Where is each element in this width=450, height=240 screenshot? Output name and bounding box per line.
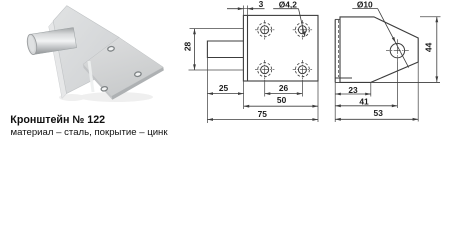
svg-text:44: 44 [424,42,434,52]
hole bottom-right [293,60,312,79]
svg-text:75: 75 [258,109,268,119]
pin (top view) [207,41,243,58]
base edge-on top line [335,77,352,79]
svg-text:50: 50 [277,95,287,105]
photo pin [26,28,77,56]
plate outline (top view) [243,15,318,81]
svg-text:26: 26 [279,83,289,93]
svg-text:53: 53 [374,108,384,118]
right view ext lines [335,17,440,122]
svg-text:3: 3 [259,0,264,9]
svg-text:23: 23 [348,85,358,95]
ext line bottom 28 [189,69,244,71]
svg-text:41: 41 [359,97,369,107]
circle Ø10 [386,39,409,62]
dim 75 [207,118,318,121]
side plate outline (pentagon) [340,17,418,83]
dim 25 [207,92,243,95]
ext lines strip up for dim 3 [242,6,244,16]
svg-text:Ø4,2: Ø4,2 [279,0,297,9]
photo bend highlight [88,61,95,92]
svg-text:материал – сталь, покрытие – ц: материал – сталь, покрытие – цинк [11,127,169,138]
ext line pin left / 25 / 75 [206,58,208,124]
dim 28 [193,29,196,70]
hole top-left [255,20,274,39]
photo shadow [59,92,153,102]
hole bottom-left [255,60,274,79]
dim 3 (strip thickness) [227,7,265,10]
vertical plate strip right line [247,15,249,81]
dim 53 [335,118,418,121]
left strip outer line [334,19,336,82]
base edge-on bottom line [335,81,440,83]
svg-text:Ø10: Ø10 [357,0,373,9]
hidden dashed line in strip [337,20,339,77]
photo base holes [101,46,142,92]
dim 41 [335,104,397,107]
svg-text:Кронштейн № 122: Кронштейн № 122 [10,114,105,126]
svg-text:28: 28 [182,42,192,52]
dim 50 [244,105,318,108]
dim 44 [435,17,438,82]
svg-text:25: 25 [219,83,229,93]
photo base plate [83,37,164,99]
dim 26 [265,92,303,95]
dim 23 [335,93,371,96]
ext line plate right below [317,81,319,122]
hole top-right [293,20,312,39]
ext line strip left below plate [243,81,245,109]
ext line top 28 [190,28,244,30]
photo vertical plate face [53,6,119,94]
photo bracket near face band [49,11,114,99]
ext lines holes 26 [264,80,266,97]
